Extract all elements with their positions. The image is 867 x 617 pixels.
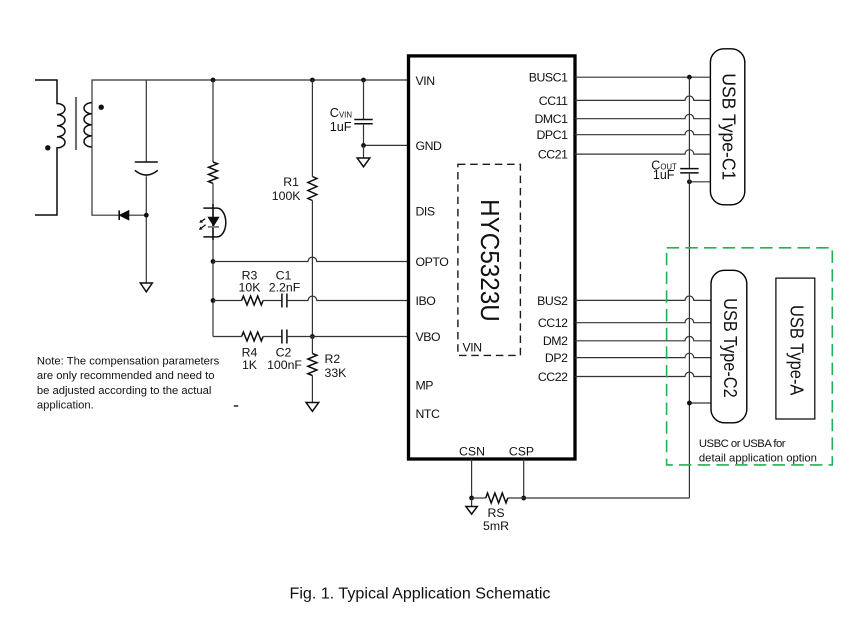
- resistor RS 5mR: [486, 493, 508, 503]
- junction dot diode/cap node: [144, 213, 149, 218]
- svg-text:R2: R2: [325, 352, 341, 366]
- wire VIN rail to CVIN: [363, 80, 365, 120]
- wire IBO row to IC (hop over R1 line): [287, 296, 407, 300]
- svg-text:2.2nF: 2.2nF: [269, 281, 301, 295]
- svg-text:Note: The compensation paramet: Note: The compensation parameters: [37, 356, 220, 368]
- svg-text:CVIN: CVIN: [330, 106, 352, 120]
- capacitor C2: [281, 330, 283, 344]
- wire DP2 row (hop): [575, 353, 711, 357]
- wire resistor to optocoupler LED: [212, 183, 214, 261]
- junction dot VIN rail / R1: [310, 78, 315, 83]
- svg-text:1uF: 1uF: [653, 168, 675, 182]
- wire VBO node to R2: [311, 337, 313, 354]
- svg-text:Fig. 1. Typical Application Sc: Fig. 1. Typical Application Schematic: [290, 585, 551, 603]
- wire BUS2 row (hop): [575, 296, 711, 300]
- wire VBUS vertical bus upper: [688, 77, 690, 168]
- wire VBUS stub to USB C2: [689, 402, 711, 404]
- svg-text:OPTO: OPTO: [416, 255, 449, 269]
- wire CSN to RS: [472, 497, 486, 499]
- wire DPC1 row (hop): [575, 130, 711, 134]
- svg-text:IBO: IBO: [416, 294, 436, 308]
- rectifier diode: [120, 211, 129, 220]
- svg-text:HYC5323U: HYC5323U: [475, 199, 505, 322]
- wire R2 to ground: [311, 376, 313, 403]
- wire VIN rail to input capacitor: [145, 80, 147, 162]
- junction dot CSN node: [469, 496, 474, 501]
- junction dot GND row: [361, 143, 366, 148]
- ground (R2): [306, 403, 319, 412]
- svg-text:100nF: 100nF: [267, 358, 302, 372]
- IC right pin labels: [529, 71, 568, 384]
- connector USB Type-A: [776, 278, 815, 419]
- wire to ground symbol: [363, 145, 365, 158]
- wire DMC1 row (hop): [575, 114, 711, 118]
- svg-text:1uF: 1uF: [330, 120, 352, 134]
- wire IBO row left part: [213, 300, 242, 302]
- svg-text:CC11: CC11: [539, 94, 568, 108]
- wire OPTO row (hop over R1 line): [213, 257, 407, 261]
- wire R4 to C2: [263, 336, 281, 338]
- wire DM2 row (hop): [575, 336, 711, 340]
- capacitor CVIN 1uF: [354, 119, 372, 121]
- junction dot CSP node: [521, 496, 526, 501]
- input filter capacitor (polarized): [135, 161, 158, 163]
- svg-text:USB Type-C2: USB Type-C2: [720, 298, 740, 398]
- svg-text:CSP: CSP: [509, 444, 534, 458]
- capacitor COUT 1uF: [680, 168, 698, 170]
- wire CVIN to GND pin row: [363, 124, 365, 146]
- optocoupler LED U (emitter side): [199, 204, 226, 240]
- green dashed option box: [667, 248, 833, 465]
- IC left pin labels: [416, 74, 449, 421]
- svg-text:VBO: VBO: [416, 330, 441, 344]
- wire CSN pin down: [471, 459, 473, 498]
- wire capacitor to ground: [145, 176, 147, 283]
- svg-text:R1: R1: [283, 175, 299, 189]
- transformer T secondary winding: [84, 103, 92, 147]
- junction dot BUSC1/bus: [687, 75, 692, 80]
- wire secondary bottom to diode: [92, 147, 146, 215]
- wire CC11 row (hop): [575, 96, 711, 100]
- svg-text:GND: GND: [416, 139, 443, 153]
- svg-text:DMC1: DMC1: [534, 112, 568, 126]
- svg-text:1K: 1K: [242, 358, 258, 372]
- IC internal dashed block: [458, 164, 521, 355]
- junction dot VIN rail / opto branch: [211, 78, 216, 83]
- note text: [37, 356, 220, 412]
- svg-text:BUS2: BUS2: [537, 294, 568, 308]
- wire VBO row left part: [213, 336, 242, 338]
- wire VIN rail down to R1: [311, 80, 313, 177]
- svg-text:DP2: DP2: [545, 351, 568, 365]
- wire VBO row to IC: [287, 336, 407, 338]
- svg-text:CC12: CC12: [538, 316, 568, 330]
- svg-text:5mR: 5mR: [483, 519, 509, 533]
- svg-text:10K: 10K: [239, 281, 262, 295]
- stray dash: [234, 405, 238, 407]
- resistor R2: [308, 354, 317, 376]
- resistor R1: [308, 177, 317, 201]
- svg-text:USB Type-C1: USB Type-C1: [718, 73, 738, 180]
- junction dot VBO node: [310, 334, 315, 339]
- resistor R4: [242, 332, 264, 341]
- junction dot VBUS stub C2: [687, 401, 692, 406]
- wire VBUS vertical bus lower: [688, 173, 690, 498]
- wire CSP pin down: [523, 459, 525, 498]
- svg-text:are only recommended and need: are only recommended and need to: [37, 370, 215, 382]
- opto series resistor (unlabelled): [209, 162, 218, 183]
- wire BUSC1 row: [575, 76, 711, 78]
- wire secondary top to VIN rail: [92, 80, 407, 147]
- ground (CSN): [466, 507, 477, 515]
- svg-text:VIN: VIN: [416, 74, 435, 88]
- transformer core: [75, 97, 77, 150]
- transformer primary polarity dot: [45, 145, 50, 150]
- wire CSN node to ground: [471, 498, 473, 507]
- ground (CVIN): [357, 158, 370, 167]
- svg-text:CC22: CC22: [538, 370, 568, 384]
- svg-text:DM2: DM2: [543, 334, 568, 348]
- svg-text:DIS: DIS: [416, 204, 435, 218]
- connector USB Type-C1: [710, 49, 744, 205]
- svg-text:VIN: VIN: [463, 341, 482, 355]
- wire R3 to C1: [263, 300, 281, 302]
- svg-text:CC21: CC21: [538, 148, 568, 162]
- svg-text:be adjusted according to the a: be adjusted according to the actual: [37, 385, 212, 397]
- svg-text:33K: 33K: [325, 366, 348, 380]
- wire R1 to VBO node: [311, 201, 313, 337]
- svg-text:USBC or USBA for: USBC or USBA for: [699, 438, 786, 450]
- svg-text:BUSC1: BUSC1: [529, 71, 568, 85]
- svg-text:USB Type-A: USB Type-A: [786, 305, 806, 396]
- wire opto branch down: [212, 262, 214, 337]
- wire VIN rail down to opto resistor: [212, 80, 214, 162]
- junction dot VIN rail / CVIN: [361, 78, 366, 83]
- junction dot opto/OPTO row: [211, 259, 216, 264]
- wire VBUS stub to USB C1: [689, 181, 710, 183]
- svg-text:application.: application.: [37, 399, 94, 411]
- junction dot VBUS stub: [687, 179, 692, 184]
- svg-text:CSN: CSN: [459, 444, 485, 458]
- ground (input capacitor): [140, 283, 152, 292]
- svg-text:MP: MP: [416, 378, 434, 392]
- wire GND row: [364, 144, 408, 146]
- wire CC21 row (hop): [575, 150, 711, 154]
- svg-text:100K: 100K: [272, 189, 302, 203]
- svg-text:RS: RS: [487, 506, 504, 520]
- junction dot IBO row: [211, 298, 216, 303]
- wire RS to CSP node: [508, 497, 524, 499]
- wire CSP node to VBUS bus: [524, 497, 690, 499]
- svg-text:NTC: NTC: [416, 407, 440, 421]
- svg-text:DPC1: DPC1: [536, 128, 568, 142]
- connector USB Type-C2: [711, 270, 747, 423]
- svg-text:detail application option: detail application option: [699, 453, 817, 465]
- capacitor C1: [281, 294, 283, 308]
- transformer T primary winding: [35, 80, 65, 215]
- resistor R3: [242, 296, 264, 305]
- op IC U1 HYC5323U body: [409, 56, 576, 459]
- transformer secondary polarity dot: [99, 105, 104, 110]
- wire CC12 row (hop): [575, 318, 711, 322]
- wire CC22 row (hop): [575, 372, 711, 376]
